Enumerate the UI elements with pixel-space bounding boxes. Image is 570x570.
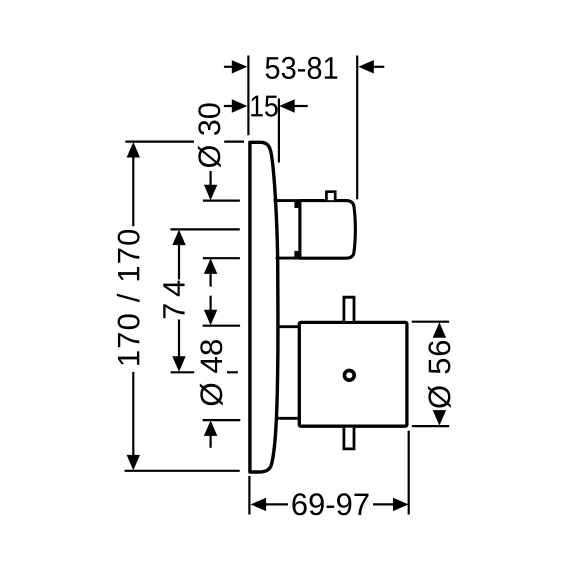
extension line: handle top — [203, 200, 240, 202]
extension line: knob right face (bottom, for 69-97) — [408, 431, 410, 515]
Ø48 upper arrow stem — [210, 296, 212, 313]
74 dimension line lower stem — [178, 320, 180, 358]
dimension label 170 / 170 (rotated) — [117, 230, 140, 365]
dimension label 74 (rotated) — [163, 281, 184, 319]
Ø48 lower arrow stem — [210, 435, 212, 448]
extension line: knob sleeve bottom — [203, 419, 241, 421]
Ø30 upper arrow (down) — [204, 185, 217, 201]
Ø48 lower arrow (up) — [204, 420, 217, 436]
dimension label 53-81 — [266, 57, 338, 79]
Ø30 upper arrow stem — [210, 171, 212, 187]
extension line: handle front face (for 53-81) — [356, 56, 358, 200]
170 lower arrow (down) — [127, 455, 140, 471]
extension line: knob centerline (right part) — [227, 371, 238, 373]
extension line: handle bottom — [203, 257, 240, 259]
dimension 15 left arrow — [224, 105, 234, 107]
extension line: wall face (left, for 53-81 and 15) — [247, 56, 249, 136]
extension line: plate bottom edge — [125, 470, 240, 472]
74 upper arrow (up) — [172, 230, 185, 246]
dimension 53-81 right arrow — [372, 66, 384, 68]
dimension label Ø 30 (rotated) — [198, 103, 221, 167]
extension line: handle centerline — [170, 228, 239, 230]
top handle sleeve — [274, 201, 300, 259]
retaining-ring notch (lower) — [294, 251, 301, 258]
Ø48 upper arrow (down) — [204, 310, 217, 326]
knob center screw dot — [344, 370, 354, 380]
74 dimension line upper stem — [178, 244, 180, 280]
extension line: plate front face (for 15) — [278, 99, 280, 163]
74 lower arrow (down) — [172, 356, 185, 372]
retaining-ring notch (upper) — [294, 201, 301, 208]
dimension 69-97 left arrow — [251, 498, 267, 511]
Ø30 lower arrow stem — [210, 273, 212, 287]
170 dimension line lower stem — [132, 372, 134, 456]
wall plate (escutcheon, side view) — [250, 142, 278, 472]
extension line: plate top edge — [125, 141, 194, 143]
extension line: knob top (right side) — [412, 321, 449, 323]
dimension 15 right arrow — [294, 105, 308, 107]
extension line: knob bottom (right side) — [412, 425, 449, 427]
thermostat knob sleeve — [277, 327, 300, 419]
dimension label 15 — [251, 96, 277, 117]
Ø56 upper arrow (up) — [433, 322, 446, 338]
extension line: plate left edge (bottom, for 69-97) — [248, 476, 250, 515]
extension line: knob sleeve top — [203, 325, 241, 327]
top handle index tab — [326, 192, 335, 201]
170 dimension line upper stem — [132, 156, 134, 226]
dimension label Ø 56 (rotated) — [428, 341, 451, 408]
knob top tab — [344, 297, 354, 321]
dimension label Ø 48 (rotated) — [200, 340, 223, 406]
thermostat knob body — [299, 322, 407, 426]
top handle body — [300, 201, 356, 259]
Ø56 lower arrow (down) — [433, 410, 446, 426]
170 upper arrow (up) — [127, 142, 140, 158]
dimension 69-97 right arrow — [373, 503, 394, 505]
dimension 53-81 left arrow — [224, 66, 234, 68]
knob bottom tab — [344, 428, 354, 449]
extension line: knob centerline (left part) — [171, 371, 195, 373]
dimension label 69-97 — [292, 493, 368, 515]
Ø30 lower arrow (up) — [204, 258, 217, 274]
